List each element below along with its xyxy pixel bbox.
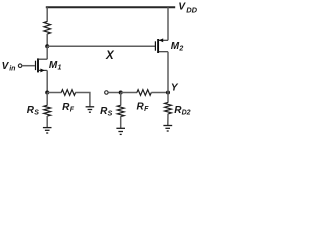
wire rail to RD1	[46, 7, 48, 21]
resistor RF2	[137, 90, 151, 96]
label RF2	[137, 102, 150, 113]
wire node S1 to RF1	[47, 92, 61, 94]
resistor RS2	[117, 105, 124, 116]
ground under RS2	[116, 128, 125, 134]
wire node S2 to RF2	[121, 92, 137, 94]
svg-text:S: S	[34, 109, 39, 116]
wire RF1 to ground corner	[75, 93, 90, 107]
resistor RD1 (unlabeled drain resistor of M1)	[44, 22, 51, 35]
svg-text:1: 1	[58, 65, 62, 72]
resistor RD2	[165, 102, 172, 114]
node S2 junction dot	[119, 91, 123, 95]
wire RS1 to ground	[46, 116, 48, 128]
wire Vin terminal to M1 gate	[22, 65, 35, 67]
svg-text:S: S	[108, 110, 113, 117]
svg-text:F: F	[70, 106, 75, 113]
wire node X down to M1 drain	[46, 46, 48, 59]
node Y junction dot	[166, 91, 170, 95]
svg-text:DD: DD	[186, 5, 197, 14]
wire node S2 to RS2	[120, 93, 122, 106]
svg-text:in: in	[9, 65, 15, 72]
label RS2	[100, 106, 113, 117]
label M1	[49, 60, 62, 72]
node X junction dot	[45, 44, 49, 48]
wire node X to M2 gate	[47, 45, 155, 47]
svg-text:F: F	[144, 106, 149, 113]
wire M2 drain down to node Y	[167, 52, 169, 93]
ground under RS1	[43, 128, 52, 133]
wire node Y to RD2	[167, 93, 169, 103]
wire node S1 to RS1	[46, 93, 48, 106]
label RS1	[27, 105, 40, 117]
label RD2	[174, 105, 190, 116]
wire RD1 to node X	[46, 34, 48, 46]
VDD rail	[46, 6, 175, 8]
wire RS2 to ground	[120, 116, 122, 128]
wire RD2 to ground	[167, 114, 169, 126]
label M2	[171, 41, 184, 53]
input terminal circle Vin	[18, 64, 22, 68]
ground under RD2	[163, 126, 172, 132]
node S1 junction dot	[45, 91, 49, 95]
wire RF2 to node Y	[151, 92, 168, 94]
wire terminal to node S2	[108, 92, 121, 94]
label Vin	[2, 61, 16, 72]
resistor RF1	[61, 90, 75, 96]
svg-text:2: 2	[178, 46, 183, 53]
input terminal circle stage 2	[105, 91, 109, 95]
ground right of RF1	[86, 107, 95, 112]
label VDD	[178, 2, 197, 15]
svg-text:X: X	[105, 50, 115, 62]
wire M1 source down to node S1	[46, 70, 48, 92]
transistor M2 (PMOS-style with source arrow)	[155, 38, 168, 53]
label RF1	[62, 102, 75, 113]
wire rail down to M2 source	[167, 7, 169, 40]
transistor M1 (NMOS)	[36, 58, 48, 72]
resistor RS1	[44, 105, 51, 116]
svg-text:D2: D2	[182, 110, 191, 117]
